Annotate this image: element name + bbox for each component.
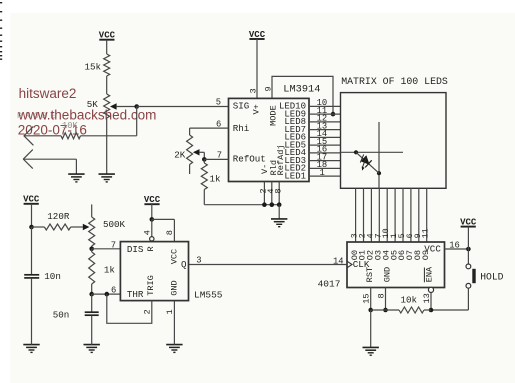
node mode-LED9 [331,112,336,117]
clock input symbol [347,261,352,268]
wire pin 10 LED10 [309,105,341,107]
wiper arrow 500K [83,224,90,230]
wire pin16 [445,248,469,250]
wire pin13 [430,293,432,311]
svg-text:MODE: MODE [269,105,279,126]
node DIS [89,247,94,252]
ground (555) [166,344,182,346]
svg-text:4017: 4017 [318,278,341,289]
wire matrix column 6 [410,188,412,242]
node pin2 gnd [262,202,267,207]
node VCC 4017 [466,247,471,252]
wire [151,219,153,236]
svg-text:Rhi: Rhi [233,123,250,134]
resistor 15k [104,54,110,76]
wire bottom bus [204,204,279,206]
ground (4017) [370,310,372,347]
svg-text:50n: 50n [53,310,70,321]
svg-text:1: 1 [320,168,325,178]
svg-text:4: 4 [142,230,152,235]
wire matrix column 3 [355,188,357,242]
svg-text:Q: Q [181,259,187,270]
svg-text:120R: 120R [47,211,70,222]
wire matrix column 9 [418,188,420,242]
wire [152,218,175,220]
svg-text:V+: V+ [252,104,262,114]
switch HOLD [466,264,471,269]
svg-text:TRIG: TRIG [146,275,156,296]
wire pin1 gnd [173,301,175,339]
wire [467,249,469,264]
svg-text:5: 5 [216,98,221,108]
node TRIG junction [105,292,110,297]
ground (probe return) [75,166,77,175]
wire pin 17 LED3 [309,160,341,162]
ground (10n) [23,344,39,346]
wire matrix column 5 [402,188,404,242]
svg-text:6: 6 [111,286,116,296]
wire [71,226,83,228]
wiper arrow 2K [193,149,200,155]
svg-text:2: 2 [142,309,152,314]
wire pin15 [370,288,372,311]
wire pin 14 LED6 [309,136,341,138]
resistor 1k (RefAdj) [203,159,205,163]
wire pin6 THR [92,293,121,295]
wire [137,106,229,108]
probe arrow 2 [23,150,33,160]
wiper arrow 5K [110,103,117,109]
svg-text:LM555: LM555 [194,290,223,301]
svg-text:www.thebackshed.com: www.thebackshed.com [17,108,156,123]
svg-text:RST: RST [365,267,375,282]
svg-text:7: 7 [111,240,116,250]
wire pin8 RefAdj [278,182,280,205]
wire pin4 Rld [271,182,273,205]
svg-text:LED1: LED1 [284,171,306,181]
node 555 VCC [150,217,155,222]
svg-text:MATRIX OF 100 LEDS: MATRIX OF 100 LEDS [341,76,448,87]
wire pin3 [256,39,258,98]
svg-text:DIS: DIS [127,244,144,255]
LED emission arrows [362,156,366,167]
node row [354,150,358,154]
svg-text:10K: 10K [62,121,79,131]
svg-text:GND: GND [170,280,180,295]
counter U3 4017 box [347,242,445,288]
svg-text:10k: 10k [401,294,418,305]
LED D1 [356,152,379,173]
wire matrix column 4 [370,188,372,242]
wire matrix row [341,151,404,153]
wire [31,204,33,227]
svg-text:2K: 2K [174,150,186,161]
wire [371,309,399,311]
svg-text:THR: THR [127,289,144,300]
wire pin8 gnd [385,288,387,311]
wire pin 16 LED4 [309,152,341,154]
svg-text:3: 3 [248,88,258,93]
wire pin 15 LED5 [309,144,341,146]
wire matrix column 10 [386,188,388,242]
node pin13 [429,308,434,313]
ground (50n) [84,344,100,346]
svg-text:15k: 15k [85,62,102,73]
probe arrow 1 [24,126,34,136]
svg-text:1k: 1k [104,265,116,276]
capacitor 50n [91,294,93,312]
node RefOut [202,157,207,162]
svg-text:1k: 1k [210,174,222,185]
node pin15 [368,308,373,313]
node 120R rail [29,225,34,230]
resistor 120R [44,224,70,230]
wire pin 13 LED7 [309,129,341,131]
svg-text:LM3914: LM3914 [283,83,320,95]
wire [424,309,431,311]
wire CLK [189,264,348,266]
capacitor 10n [31,227,33,274]
resistor 10k [399,307,424,313]
svg-text:9: 9 [263,86,273,91]
svg-text:500K: 500K [103,219,126,230]
inverter circle pin13 [428,287,433,292]
wire pin9 mode loop [272,76,333,114]
wire [116,106,137,108]
svg-text:8: 8 [165,230,175,235]
wire pin 12 LED8 [309,121,341,123]
wire matrix column 1 [394,188,396,242]
potentiometer 500K [91,204,93,217]
svg-text:RefOut: RefOut [233,154,266,165]
node pin8 gnd [277,202,282,207]
svg-text:10n: 10n [44,271,61,282]
wire [106,40,108,54]
svg-text:11: 11 [422,228,431,238]
svg-text:GND: GND [383,267,393,282]
wire pin 11 LED9 [309,113,341,115]
node pin4 gnd [270,202,275,207]
wire [106,76,108,94]
ground (5K pot) [99,173,115,175]
potentiometer 5K [104,94,110,118]
left edge marks [0,2,2,3]
wire matrix column 2 [363,188,365,242]
resistor 10K (probe) [61,133,81,139]
inverter circle pin4 [150,237,154,241]
svg-text:hitsware2: hitsware2 [19,86,77,101]
node pot wiper [134,104,139,109]
wire pin 1 LED1 [309,175,341,177]
wire pin2 TRIG path [107,294,152,323]
wire pin7 RefOut [204,158,228,160]
potentiometer 2K [187,135,193,165]
wire pin 18 LED2 [309,167,341,169]
wire pin7 DIS [92,248,121,250]
wire [199,151,204,153]
wire [24,135,61,137]
wire pin2 V- [263,182,265,205]
node pin8 [383,308,388,313]
wire [467,288,469,310]
svg-text:VCC: VCC [170,249,180,264]
wire [151,204,153,219]
wire [32,226,45,228]
wire [81,135,137,137]
node column [377,171,381,175]
svg-text:SIG: SIG [233,100,250,111]
wire [136,107,138,136]
svg-text:ENA: ENA [424,266,434,282]
node THR [89,292,94,297]
matrix box [341,93,447,189]
svg-text:R: R [146,246,156,251]
svg-text:8: 8 [273,188,283,193]
svg-text:HOLD: HOLD [480,271,503,282]
svg-text:VCC: VCC [424,244,441,255]
wire matrix column 7 [378,188,380,242]
wire [23,158,76,160]
op-amp U1 LM3914 box [229,98,310,181]
svg-text:1: 1 [165,309,175,314]
wire matrix column [378,122,380,188]
wire matrix column 11 [426,188,428,242]
timer U2 LM555 box [120,242,188,301]
svg-text:5K: 5K [87,99,99,110]
resistor 1k (555) [91,249,93,252]
wire pin6 Rhi [190,127,229,129]
ground (LM3914) [278,205,280,219]
svg-text:3: 3 [196,256,201,266]
